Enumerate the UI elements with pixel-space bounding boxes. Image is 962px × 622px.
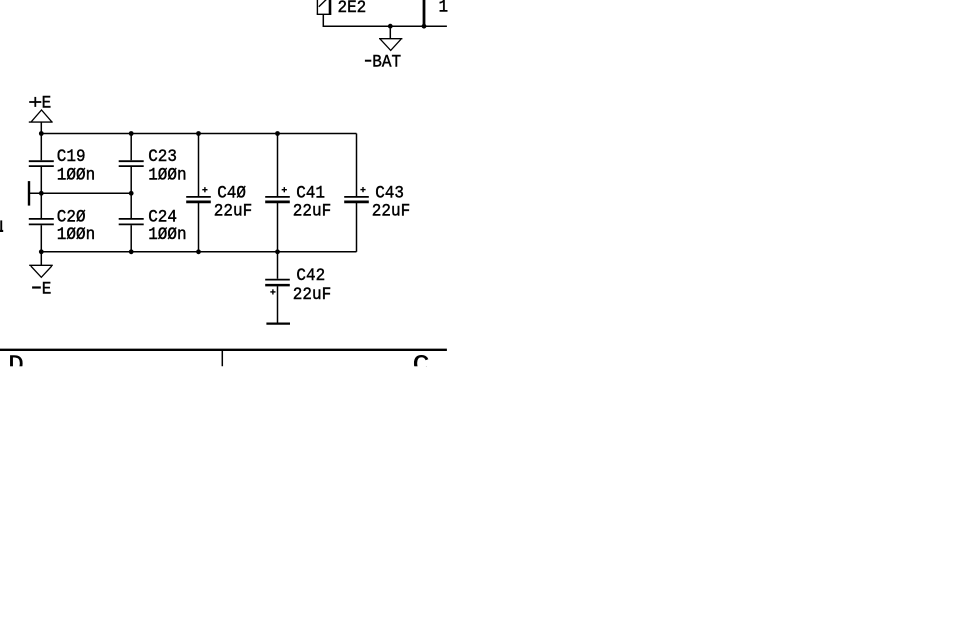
plus mark C41: [282, 187, 287, 192]
svg-text:BAT: BAT: [372, 53, 401, 73]
wire middle rail to C24: [130, 193, 132, 218]
wire top rail to C23: [130, 134, 132, 161]
wire C42 to ground: [277, 286, 279, 322]
wire C40 to bottom rail: [198, 203, 200, 252]
svg-text:22uF: 22uF: [293, 202, 331, 222]
capacitor C23: [119, 161, 144, 166]
plus mark C43: [360, 187, 365, 192]
wire bottom rail to C42: [277, 252, 279, 279]
svg-text:1ØØn: 1ØØn: [148, 225, 186, 245]
power label -BAT: [365, 60, 371, 62]
power label -E: [32, 286, 41, 288]
svg-text:22uF: 22uF: [214, 202, 252, 222]
wire top rail to C19: [40, 134, 42, 161]
wire stub to -BAT ground: [389, 26, 391, 39]
capacitor C41 (electrolytic): [265, 197, 290, 202]
wire C41 to bottom rail: [277, 203, 279, 252]
wire top rail to C41: [277, 134, 279, 197]
wire +E to top rail: [40, 122, 42, 133]
junction top rail col2: [129, 131, 134, 136]
junction bottom rail col2: [129, 249, 134, 254]
capacitor C20: [29, 219, 54, 225]
wire top rail to C40: [198, 134, 200, 197]
svg-text:1ØØn: 1ØØn: [57, 225, 95, 245]
svg-text:22uF: 22uF: [372, 202, 410, 222]
plus mark C40: [202, 187, 207, 192]
sheet border line: [0, 349, 447, 351]
white mask under border zone letters: [0, 366, 470, 378]
svg-text:E: E: [42, 280, 52, 300]
svg-text:C4Ø: C4Ø: [217, 184, 246, 204]
junction middle rail col2: [129, 191, 134, 196]
power symbol -E: [29, 265, 53, 277]
junction at thick net: [422, 24, 427, 29]
capacitor C40 (electrolytic): [186, 197, 211, 202]
capacitor C42 (electrolytic): [265, 280, 290, 286]
wire middle rail to C20: [40, 193, 42, 218]
svg-text:1ØØn: 1ØØn: [148, 166, 186, 186]
thick net stub (cut at top): [423, 0, 426, 26]
capacitor C19: [29, 161, 54, 166]
svg-text:2E2: 2E2: [338, 0, 367, 18]
power symbol +E: [29, 110, 53, 122]
wire C20 to bottom rail: [40, 225, 42, 252]
wire C19 to middle rail: [40, 167, 42, 193]
ground bar (C42): [266, 323, 290, 325]
svg-text:22uF: 22uF: [293, 285, 331, 305]
terminal stub bar left: [28, 181, 30, 206]
resistor R (partial, cut at top): [317, 0, 332, 14]
bottom rail: [41, 251, 356, 253]
junction bottom rail col3: [196, 249, 201, 254]
svg-text:1ØØn: 1ØØn: [57, 166, 95, 186]
ground symbol -BAT: [379, 39, 402, 51]
junction middle rail col1: [39, 191, 44, 196]
wire C23 to middle rail: [130, 167, 132, 193]
zone divider tick: [221, 351, 223, 367]
svg-text:C43: C43: [375, 184, 404, 204]
power label +E: [29, 97, 41, 107]
wire bottom rail to -E symbol: [40, 252, 42, 265]
junction bottom rail col4: [275, 249, 280, 254]
junction at -BAT stub: [388, 24, 393, 29]
junction top rail col3: [196, 131, 201, 136]
capacitor C43 (electrolytic): [344, 197, 369, 202]
junction bottom rail col1: [39, 249, 44, 254]
plus mark C42: [270, 289, 275, 294]
junction top rail col1: [39, 131, 44, 136]
wire C43 to bottom rail: [356, 203, 358, 252]
svg-text:C41: C41: [296, 184, 325, 204]
capacitor C24: [119, 219, 144, 225]
svg-text:C19: C19: [57, 147, 86, 167]
top rail: [41, 133, 356, 135]
wire C24 to bottom rail: [130, 225, 132, 252]
left edge glyph fragment: [0, 220, 2, 232]
middle rail: [29, 192, 131, 194]
junction top rail col4: [275, 131, 280, 136]
wire top rail to C43: [356, 134, 358, 197]
svg-text:1: 1: [439, 0, 449, 18]
svg-text:C23: C23: [148, 147, 177, 167]
svg-text:C42: C42: [296, 266, 325, 286]
wire resistor to ground rail: [323, 14, 447, 26]
